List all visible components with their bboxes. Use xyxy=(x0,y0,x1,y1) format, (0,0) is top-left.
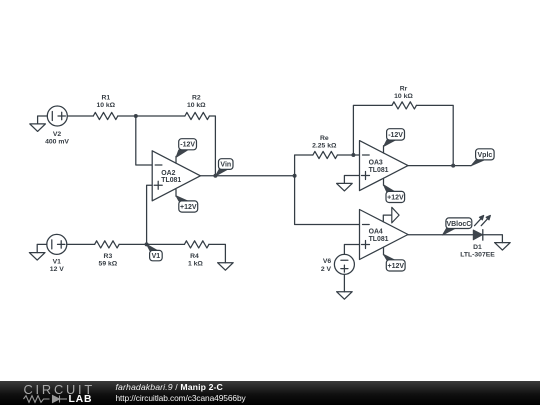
R1 value label 10 kΩ xyxy=(96,95,115,110)
svg-text:12 V: 12 V xyxy=(50,266,64,273)
svg-text:Vin: Vin xyxy=(220,161,231,168)
svg-text:TL081: TL081 xyxy=(369,167,389,174)
op-amp OA2 xyxy=(152,151,200,201)
svg-text:OA3: OA3 xyxy=(369,160,383,167)
R4 value label 1 kΩ xyxy=(188,253,203,268)
svg-text:-12V: -12V xyxy=(388,132,403,139)
node junction OA3 output/feedback xyxy=(451,164,455,168)
wire V1 to R3 xyxy=(67,243,95,245)
resistor R4 xyxy=(184,241,209,248)
wire R3 to node V1 xyxy=(119,243,147,245)
R3 value label 59 kΩ xyxy=(99,253,118,268)
R2 value label 10 kΩ xyxy=(187,95,206,110)
ground (V2) xyxy=(30,124,46,131)
node junction Re/feedback xyxy=(351,153,355,157)
resistor R2 xyxy=(185,112,210,119)
op-amp OA4 xyxy=(360,210,409,260)
CircuitLab logo LAB text xyxy=(69,394,93,405)
svg-text:OA4: OA4 xyxy=(369,229,383,236)
+12V net flag (OA3) xyxy=(383,185,404,203)
svg-text:TL081: TL081 xyxy=(161,177,181,184)
resistor R1 xyxy=(93,112,118,119)
wire node to R2 xyxy=(136,115,185,117)
footer url text xyxy=(116,393,246,403)
node junction V1 rail xyxy=(145,242,149,246)
svg-text:2.25 kΩ: 2.25 kΩ xyxy=(312,142,337,149)
svg-text:V1: V1 xyxy=(152,253,161,260)
CircuitLab logo resistor+diode glyph xyxy=(0,381,100,405)
V6 value label xyxy=(321,258,332,273)
svg-text:VBlocC: VBlocC xyxy=(446,221,471,228)
svg-text:V1: V1 xyxy=(53,259,62,266)
wire Re to OA3 inverting input xyxy=(337,154,359,156)
footer bar xyxy=(0,381,540,405)
ground (D1) xyxy=(495,243,511,251)
Re value label 2.25 kΩ xyxy=(312,135,337,150)
svg-text:+12V: +12V xyxy=(387,195,404,202)
footer title text xyxy=(116,382,223,392)
LED D1 xyxy=(473,230,483,240)
wire R4 to ground xyxy=(209,244,226,262)
node junction R1/R2/OA2- xyxy=(134,114,138,118)
wire V6 to ground xyxy=(343,274,345,291)
-12V net flag (OA3) xyxy=(384,129,405,147)
OA4 name label xyxy=(369,229,389,243)
svg-text:400 mV: 400 mV xyxy=(45,139,69,146)
OA2 name label xyxy=(161,170,181,184)
wire node to R4 xyxy=(147,243,185,245)
node flag Vin xyxy=(215,159,233,177)
OA3 name label xyxy=(369,160,389,174)
svg-text:V2: V2 xyxy=(53,131,62,138)
wire OA3 non-inverting input to ground xyxy=(344,176,359,184)
voltage source V1 xyxy=(47,234,67,254)
node flag Vplc xyxy=(471,149,494,166)
-12V net flag (OA2) xyxy=(176,139,197,158)
svg-text:D1: D1 xyxy=(473,244,482,251)
op-amp OA3 xyxy=(360,141,409,191)
CircuitLab logo wordmark xyxy=(24,382,96,397)
node flag VBlocC xyxy=(442,218,471,235)
svg-text:10 kΩ: 10 kΩ xyxy=(187,102,206,109)
wire LED to ground xyxy=(483,235,503,243)
svg-text:Rr: Rr xyxy=(400,85,408,92)
node flag V1 xyxy=(147,244,163,261)
svg-text:R3: R3 xyxy=(104,253,113,260)
svg-text:R1: R1 xyxy=(101,95,110,102)
wire middle node up to Re xyxy=(295,155,313,176)
wire V1 left xyxy=(37,244,47,252)
resistor Rr xyxy=(392,102,417,109)
wire node down to OA2 inverting input xyxy=(136,116,152,165)
svg-text:TL081: TL081 xyxy=(369,236,389,243)
node Vin junction xyxy=(213,174,217,178)
ground (V6) xyxy=(337,292,353,300)
svg-text:1 kΩ: 1 kΩ xyxy=(188,260,203,267)
D1 value label LTL-307EE xyxy=(460,244,495,259)
svg-text:+12V: +12V xyxy=(388,263,405,270)
ground (V1) xyxy=(29,253,45,261)
svg-text:-12V: -12V xyxy=(180,142,195,149)
svg-text:OA2: OA2 xyxy=(161,170,175,177)
voltage source V2 xyxy=(47,106,67,126)
wire OA4 output to LED xyxy=(408,234,473,236)
LED light arrow 2 xyxy=(481,215,490,225)
svg-text:10 kΩ: 10 kΩ xyxy=(394,93,413,100)
voltage source V6 xyxy=(334,254,354,274)
wire OA4 non-inverting input to V6 xyxy=(344,245,359,255)
wire OA2 non-inverting input down to V1 rail xyxy=(147,185,153,244)
wire R1 to node xyxy=(118,115,136,117)
wire OA3 output xyxy=(408,165,471,167)
svg-text:R4: R4 xyxy=(190,253,199,260)
wire R2 to OA2 output (feedback) xyxy=(209,116,215,176)
wire middle node down to OA4 inverting input xyxy=(295,176,360,225)
svg-text:R2: R2 xyxy=(192,95,201,102)
svg-text:+12V: +12V xyxy=(180,204,197,211)
V2 value label xyxy=(45,131,69,146)
wire feedback left vertical xyxy=(353,105,392,155)
wire OA4 top pin to net flag arrow xyxy=(383,215,392,222)
Rr value label 10 kΩ xyxy=(394,85,413,100)
svg-text:Vplc: Vplc xyxy=(478,152,493,159)
resistor R3 xyxy=(95,241,120,248)
node middle junction xyxy=(293,174,297,178)
svg-text:2 V: 2 V xyxy=(321,266,332,273)
+12V net flag (OA2) xyxy=(176,196,198,212)
svg-text:LTL-307EE: LTL-307EE xyxy=(460,251,495,258)
svg-text:Re: Re xyxy=(320,135,329,142)
wire V2 left xyxy=(38,116,48,124)
wire OA2 output to Vin node xyxy=(200,175,215,177)
svg-text:10 kΩ: 10 kΩ xyxy=(96,102,115,109)
LED light arrow 1 xyxy=(475,215,484,225)
wire Vin node to middle node xyxy=(215,175,294,177)
ground (OA3 +) xyxy=(337,183,353,191)
wire feedback right vertical to output xyxy=(416,105,453,165)
svg-text:V6: V6 xyxy=(323,258,332,265)
V1 value label xyxy=(50,259,64,274)
wire V2 to R1 xyxy=(67,115,93,117)
svg-text:59 kΩ: 59 kΩ xyxy=(99,260,118,267)
resistor Re xyxy=(313,151,338,158)
ground (R4) xyxy=(218,263,234,271)
net flag arrow (OA4 top) xyxy=(392,207,399,223)
+12V net flag (OA4) xyxy=(383,254,405,271)
